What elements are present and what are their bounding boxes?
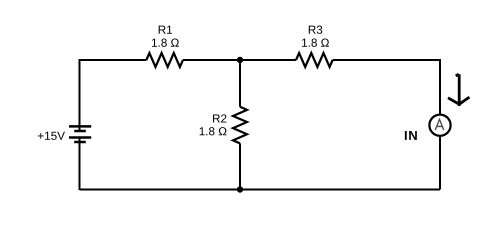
label R3 value 1.8 ohm [302, 39, 329, 47]
label R2 [213, 114, 226, 122]
wire middle lower segment (R2 to node B) [239, 143, 241, 189]
current direction arrow [448, 74, 469, 106]
junction dot node A (top) [237, 57, 243, 63]
wire right lower segment (ammeter to bottom-right corner) [439, 136, 441, 190]
resistor R3 [296, 53, 333, 67]
battery V1 (+15V source) plates [69, 126, 91, 142]
ammeter U1 circle [429, 115, 450, 136]
wire left upper segment (corner to battery) [79, 59, 81, 131]
wire left lower segment (battery to bottom-left corner) [79, 138, 81, 191]
label R2 value 1.8 ohm [200, 127, 227, 135]
resistor R2 [233, 107, 247, 144]
wire top-right segment (R3 to top-right corner) [333, 59, 440, 61]
label R3 [309, 26, 322, 34]
wire middle upper segment (node A to R2) [239, 60, 241, 107]
junction dot node B (bottom) [237, 186, 243, 192]
wire right upper segment (corner to ammeter) [439, 59, 441, 115]
label R1 value 1.8 ohm [152, 39, 179, 47]
ammeter letter A [436, 119, 444, 129]
resistor R1 [146, 53, 183, 67]
label +15V [38, 132, 65, 140]
wire bottom segment (right corner to node B) [240, 189, 440, 191]
wire top segment node A to R3 [240, 59, 296, 61]
wire top segment R1 to node A [183, 59, 240, 61]
label IN [405, 131, 417, 140]
wire top-left segment (battery to R1) [80, 59, 147, 61]
label R1 [159, 26, 172, 34]
wire bottom segment (node B to left corner) [80, 189, 241, 191]
